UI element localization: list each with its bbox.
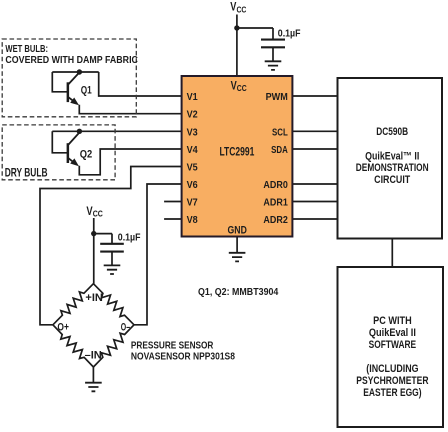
svg-text:V6: V6 — [187, 179, 199, 191]
ground below C1 — [265, 61, 282, 70]
svg-text:CIRCUIT: CIRCUIT — [374, 174, 410, 186]
svg-text:O+: O+ — [57, 322, 69, 334]
transistor Q2 base bar — [67, 143, 70, 163]
svg-text:V1: V1 — [187, 91, 199, 103]
transistor Q1 collector lead — [68, 73, 78, 84]
transistor Q1 emitter lead — [68, 97, 74, 101]
junction node Q2 collector-base — [77, 129, 82, 134]
svg-text:0.1µF: 0.1µF — [278, 28, 301, 40]
junction node Q1 collector-base — [77, 69, 82, 74]
wire Q1 collector-base tie top — [52, 71, 98, 73]
wire V5 to bridge O+ — [40, 167, 182, 325]
capacitor C1 plates — [261, 40, 285, 48]
wire Q1 node to V1 — [99, 72, 182, 96]
svg-text:V8: V8 — [187, 214, 199, 226]
dashed box WET BULB — [2, 39, 136, 117]
pin stub V7 — [164, 201, 182, 203]
svg-text:SDA: SDA — [271, 144, 288, 155]
svg-text:Q1, Q2: MMBT3904: Q1, Q2: MMBT3904 — [198, 287, 279, 299]
transistor Q1 base bar — [67, 82, 70, 102]
svg-text:GND: GND — [228, 225, 247, 237]
svg-text:O–: O– — [121, 321, 130, 333]
wire Q2 base loop — [52, 131, 67, 153]
svg-text:V2: V2 — [187, 109, 199, 121]
svg-text:VCC: VCC — [230, 2, 246, 15]
wire VCC to bridge top node — [93, 218, 95, 284]
wire V6 to bridge O- — [134, 184, 182, 325]
box DC590B demonstration circuit — [338, 78, 443, 239]
ground below C2 — [104, 265, 121, 274]
svg-text:V3: V3 — [187, 127, 199, 139]
svg-text:Q2: Q2 — [80, 149, 93, 161]
svg-text:Q1: Q1 — [81, 84, 93, 96]
wire SDA to DC590B — [292, 148, 337, 150]
svg-text:+IN: +IN — [85, 292, 102, 304]
svg-text:ADR0: ADR0 — [263, 179, 288, 191]
wire ADR0 to DC590B — [292, 183, 337, 185]
wire SCL to DC590B — [292, 130, 337, 132]
svg-text:SOFTWARE: SOFTWARE — [369, 339, 417, 351]
capacitor C2 plates — [100, 244, 124, 252]
wire VCC supply to IC VCC pin — [236, 15, 238, 77]
svg-text:PWM: PWM — [266, 91, 288, 103]
resistor bridge left-bottom arm — [53, 325, 94, 367]
wire bridge bottom to ground — [92, 367, 94, 382]
resistor bridge top-right arm — [93, 284, 134, 325]
svg-text:SCL: SCL — [272, 126, 288, 137]
wire junction to capacitor C2 — [94, 233, 112, 235]
svg-text:ADR2: ADR2 — [263, 214, 288, 226]
svg-text:V7: V7 — [187, 197, 199, 209]
wire Q2 collector-base tie to V3 — [52, 130, 181, 132]
svg-text:DRY BULB: DRY BULB — [5, 167, 48, 180]
wire ADR1 to DC590B — [292, 201, 337, 203]
wire Q1 emitter to V2 — [79, 105, 181, 114]
svg-text:LTC2991: LTC2991 — [219, 147, 254, 160]
capacitor C1 leads — [272, 28, 274, 61]
wire IC GND pin to ground — [236, 237, 238, 253]
IC U1 LTC2991 body — [182, 76, 293, 237]
wire junction to capacitor C1 — [237, 27, 273, 29]
wire ADR2 to DC590B — [292, 218, 337, 220]
pin stub V8 — [164, 218, 182, 220]
svg-text:QuikEval II: QuikEval II — [369, 327, 416, 339]
svg-text:DC590B: DC590B — [376, 126, 408, 138]
box PC with QuikEval software — [338, 267, 444, 427]
svg-text:PC WITH: PC WITH — [373, 315, 412, 327]
transistor Q2 collector lead — [68, 133, 78, 144]
svg-text:WET BULB:: WET BULB: — [5, 43, 48, 54]
svg-text:DEMONSTRATION: DEMONSTRATION — [356, 162, 429, 174]
transistor Q2 emitter lead — [68, 158, 74, 162]
svg-text:COVERED WITH DAMP FABRIC: COVERED WITH DAMP FABRIC — [5, 54, 138, 66]
wire Q1 base loop — [52, 72, 67, 92]
svg-text:ADR1: ADR1 — [263, 197, 288, 209]
svg-text:QuikEval™ II: QuikEval™ II — [365, 150, 419, 162]
svg-text:NOVASENSOR NPP301S8: NOVASENSOR NPP301S8 — [131, 351, 235, 363]
svg-text:EASTER EGG): EASTER EGG) — [363, 387, 421, 399]
svg-text:VCC: VCC — [231, 81, 247, 94]
transistor Q2 emitter arrowhead — [70, 158, 79, 166]
resistor bridge top-left arm — [53, 284, 94, 325]
junction node VCC/C2 — [91, 231, 96, 236]
svg-text:PSYCHROMETER: PSYCHROMETER — [356, 375, 428, 387]
wire Q2 emitter to V4 — [79, 149, 181, 175]
capacitor C2 leads — [111, 234, 113, 265]
wire PWM to DC590B — [292, 95, 337, 97]
svg-text:–IN: –IN — [85, 349, 102, 361]
ground below bridge — [85, 383, 102, 392]
resistor bridge right-bottom arm — [93, 325, 134, 367]
svg-text:(INCLUDING: (INCLUDING — [366, 363, 418, 375]
dashed box DRY BULB — [2, 125, 115, 180]
wire DC590B to PC box — [391, 239, 393, 268]
transistor Q1 emitter arrowhead — [70, 98, 79, 106]
svg-text:PRESSURE SENSOR: PRESSURE SENSOR — [131, 339, 214, 350]
svg-text:V5: V5 — [187, 162, 199, 174]
junction node VCC/C1 — [234, 25, 239, 30]
svg-text:0.1µF: 0.1µF — [118, 232, 141, 244]
svg-text:V4: V4 — [187, 144, 199, 156]
ground below IC GND — [229, 253, 246, 262]
